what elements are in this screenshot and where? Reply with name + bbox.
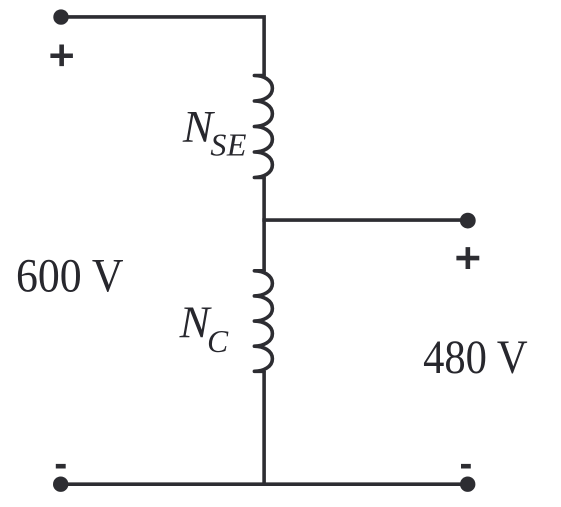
svg-text:600 V: 600 V [16, 250, 124, 303]
polarity mark: - at bottom-left [56, 464, 66, 469]
polarity mark: + at top-left input [50, 45, 73, 67]
wire: center tap horizontal to right terminal [262, 218, 468, 222]
node: bottom-left terminal dot [53, 477, 68, 492]
wire: bottom horizontal rail [61, 482, 468, 486]
svg-text:SE: SE [210, 127, 247, 163]
wire: top horizontal from left terminal to vertical bus, plus top vertical segment [61, 17, 264, 76]
wire: bottom vertical segment [262, 371, 266, 484]
node: right center-tap terminal dot [460, 213, 476, 229]
polarity mark: - at bottom-right [461, 464, 471, 469]
wire: middle vertical segment between windings [262, 178, 266, 271]
node: bottom-right terminal dot [460, 477, 475, 492]
inductor NC (common winding, 4 loops) [254, 271, 272, 372]
inductor NSE (series winding, 4 loops) [254, 76, 272, 178]
node: top-left terminal dot [53, 9, 68, 24]
polarity mark: + at right output [456, 247, 479, 269]
svg-text:C: C [207, 324, 229, 359]
svg-text:480 V: 480 V [423, 331, 528, 384]
